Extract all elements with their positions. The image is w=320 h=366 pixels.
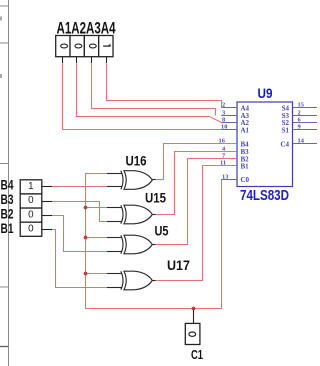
left pin stubs [221, 108, 237, 180]
wire overlay pin 11 [222, 165, 237, 167]
xor gate U15 [107, 205, 156, 224]
wire control net vertical to C0 and C1 [86, 174, 222, 309]
switch B2 box [20, 208, 52, 222]
switch A4 box [99, 36, 113, 64]
svg-text:U17: U17 [167, 257, 190, 273]
xor gate U17 [107, 271, 156, 290]
junction dot C1 [192, 307, 196, 311]
svg-text:A1: A1 [241, 126, 250, 134]
wire branch to U5 top [86, 237, 108, 239]
wire B4 to U16 [52, 186, 107, 188]
svg-text:9: 9 [298, 123, 301, 130]
sheet border line [0, 0, 9, 366]
svg-text:0: 0 [28, 223, 34, 234]
svg-text:2: 2 [222, 101, 225, 108]
svg-text:U16: U16 [126, 153, 147, 169]
svg-text:C1: C1 [191, 348, 203, 362]
svg-text:13: 13 [222, 173, 228, 180]
wire overlay pin 4 [222, 151, 237, 153]
svg-text:U15: U15 [145, 190, 166, 206]
sheet margin marks [0, 17, 2, 21]
constant C1 [185, 310, 200, 345]
svg-text:C4: C4 [280, 141, 289, 149]
wire B3 to U15 [52, 202, 107, 222]
wire overlay pin 16 [222, 143, 237, 145]
switch B3 box [20, 194, 52, 208]
wire U17 out to pin 11 [155, 166, 237, 281]
wire A3 net [92, 63, 216, 116]
svg-text:15: 15 [298, 101, 304, 108]
chip U9 74LS83D [219, 101, 318, 186]
wire B1 to U17 [52, 230, 107, 288]
svg-text:74LS83D: 74LS83D [240, 188, 289, 204]
svg-text:8: 8 [222, 116, 225, 123]
svg-text:1: 1 [28, 181, 33, 192]
junction dot U5 [84, 236, 88, 240]
wire U5 out to pin 7 [155, 159, 237, 245]
switch A1 box [56, 36, 70, 64]
svg-text:3: 3 [222, 109, 225, 116]
wire U16 out to pin 16 [155, 144, 237, 180]
xor gate U16 [107, 171, 156, 190]
junction dot U15 [84, 206, 88, 210]
svg-text:U9: U9 [258, 86, 273, 101]
svg-text:B1: B1 [1, 220, 14, 236]
wire branch to U17 top [86, 273, 108, 275]
svg-text:14: 14 [298, 137, 305, 144]
wire branch to U15 top [86, 207, 108, 209]
junction dot U17 [84, 272, 88, 276]
svg-text:A1A2A3A4: A1A2A3A4 [57, 20, 117, 38]
wire A4 net [107, 63, 222, 108]
svg-text:10: 10 [221, 123, 227, 130]
switch A3 box [84, 36, 98, 64]
right pin stubs [293, 108, 318, 144]
sheet border bottom tick [0, 346, 9, 348]
svg-text:0: 0 [28, 195, 34, 206]
wire U15 out to pin 4 [155, 152, 237, 215]
wire A2 net [77, 63, 222, 123]
svg-text:S1: S1 [282, 126, 290, 134]
svg-text:B1: B1 [241, 163, 250, 171]
switch B1 box [20, 222, 52, 236]
wire A1 net [63, 63, 222, 130]
switch B4 box [20, 180, 52, 194]
wire overlay pin 7 [222, 158, 237, 160]
wire B2 to U5 [52, 216, 107, 252]
svg-text:U5: U5 [155, 223, 169, 239]
svg-text:2: 2 [298, 109, 301, 116]
svg-text:C0: C0 [241, 176, 250, 184]
svg-text:0: 0 [28, 209, 34, 220]
xor gate U5 [107, 235, 156, 254]
switch A2 box [70, 36, 84, 64]
